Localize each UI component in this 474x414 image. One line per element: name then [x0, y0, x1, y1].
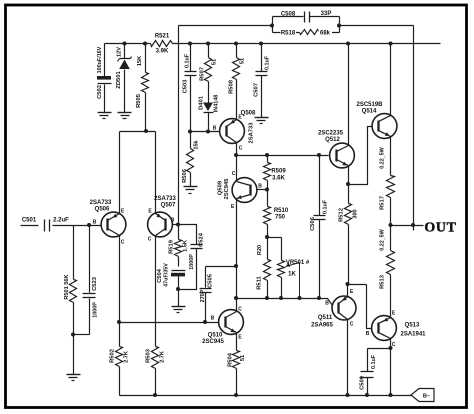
junction rail-Q514: [389, 42, 393, 46]
junction rail-C503: [188, 42, 192, 46]
resistor R513: [387, 226, 395, 318]
diode D401: [203, 103, 214, 132]
potentiometer VR501: [278, 238, 300, 299]
svg-text:2SA733: 2SA733: [249, 122, 255, 144]
svg-text:C: C: [238, 307, 242, 313]
svg-text:R20: R20: [257, 245, 263, 255]
junction wiper bottom: [298, 296, 302, 300]
label D401: [199, 95, 220, 112]
zener ZD501: [118, 44, 132, 113]
wire bottom rail: [120, 395, 412, 397]
transistor Q513: [372, 316, 397, 341]
wire to C504 ground: [178, 290, 180, 307]
svg-text:C501: C501: [22, 218, 37, 224]
junction base-C503: [188, 130, 192, 134]
svg-text:Q510: Q510: [208, 333, 223, 339]
junction rail-Q511: [346, 393, 350, 397]
wire C509 branch: [368, 348, 391, 350]
wire Q507 emitter: [155, 132, 157, 214]
wire Q509 emitter: [236, 199, 238, 267]
svg-text:100uF/16V: 100uF/16V: [97, 46, 103, 73]
label Q514: [356, 102, 383, 115]
junction bus-R505: [144, 129, 148, 133]
label R518: [281, 29, 333, 37]
label R519: [169, 239, 189, 254]
capacitor C524: [179, 225, 203, 290]
label C523: [92, 276, 98, 318]
transistor Q508: [220, 119, 245, 144]
pin C Q507: [148, 237, 152, 243]
svg-text:1.5K: 1.5K: [183, 240, 189, 252]
junction base-D401: [206, 130, 210, 134]
capacitor C501: [45, 220, 102, 232]
junction rail-R508: [234, 42, 238, 46]
svg-text:Q507: Q507: [161, 203, 176, 209]
junction rail-Q513: [389, 393, 393, 397]
transistor Q510: [219, 310, 244, 335]
label C503: [183, 53, 191, 93]
pin B Q510: [211, 316, 215, 322]
svg-text:C502: C502: [97, 85, 103, 99]
ground C504: [172, 307, 186, 313]
label R511: [257, 245, 263, 290]
resistor R508: [233, 44, 240, 120]
label R521: [155, 34, 170, 55]
capacitor C502: [97, 44, 112, 113]
svg-text:Q511: Q511: [318, 315, 333, 321]
junction rail-ZD501: [123, 42, 127, 46]
svg-text:C: C: [232, 171, 236, 177]
pin B Q508: [213, 126, 217, 132]
transistor Q506: [101, 212, 126, 237]
svg-text:B: B: [93, 220, 97, 226]
label R510: [274, 208, 289, 221]
junction rail-R505: [143, 42, 147, 46]
svg-text:47uF/35V: 47uF/35V: [163, 263, 169, 287]
junction base-C505: [203, 320, 207, 324]
label R503: [146, 348, 166, 363]
pin C Q510: [238, 307, 242, 313]
svg-text:IN4148: IN4148: [214, 95, 220, 112]
svg-text:C509: C509: [360, 375, 366, 390]
label Q512: [318, 131, 344, 144]
svg-text:15K: 15K: [137, 56, 143, 66]
wire feedback vertical: [178, 26, 180, 225]
resistor R507: [205, 44, 212, 103]
pin E Q509: [231, 204, 235, 210]
junction base-R502: [117, 320, 121, 324]
svg-text:R506: R506: [182, 168, 188, 183]
wire Q506 emitter: [119, 132, 121, 214]
pin B Q507: [171, 218, 175, 224]
label C505: [200, 273, 214, 302]
svg-text:VR501 #: VR501 #: [286, 260, 310, 266]
label R517: [379, 146, 385, 210]
svg-text:C506: C506: [310, 216, 316, 231]
svg-text:Q513: Q513: [405, 323, 420, 329]
svg-text:750: 750: [275, 215, 286, 221]
svg-text:3.6K: 3.6K: [272, 176, 285, 182]
svg-text:0.1uF: 0.1uF: [184, 53, 190, 68]
svg-text:R503: R503: [146, 348, 152, 363]
wire OUT: [391, 225, 424, 227]
wire C505 branch: [206, 266, 237, 268]
pin E Q506: [121, 209, 125, 215]
svg-text:R507: R507: [200, 67, 206, 81]
junction rail-R507: [206, 42, 210, 46]
capacitor C505: [200, 267, 212, 323]
resistor R517: [387, 176, 395, 226]
label C506: [310, 199, 328, 231]
junction rail-R503: [153, 393, 157, 397]
resistor R506: [187, 132, 194, 187]
svg-text:B: B: [258, 184, 262, 190]
svg-text:OUT: OUT: [424, 220, 456, 235]
svg-text:R508: R508: [229, 79, 235, 94]
wire Q513 collector: [390, 339, 392, 396]
pin C Q509: [232, 171, 236, 177]
wire Q510 base: [120, 322, 219, 324]
wire Q506 collector: [119, 236, 121, 323]
wire Q514 emitter: [390, 137, 392, 176]
transistor Q514: [372, 114, 397, 139]
capacitor C506: [314, 156, 326, 299]
wire bias bottom: [237, 299, 333, 306]
wire Q511 emitter: [347, 285, 349, 297]
junction C506 bottom: [317, 296, 321, 300]
junction C506 top: [317, 153, 321, 157]
junction Q513-C509: [389, 346, 393, 350]
wire Q514 collector: [390, 44, 392, 117]
wire supply rail: [105, 43, 441, 45]
wire Q509 collector: [236, 156, 238, 182]
svg-text:C: C: [350, 322, 354, 328]
wire Q512 collector: [348, 44, 350, 146]
pin B Q513: [366, 331, 370, 337]
svg-text:C508: C508: [281, 11, 296, 17]
junction fb-left: [270, 24, 274, 28]
resistor R503: [152, 236, 159, 396]
wire Q508 collector: [236, 143, 238, 156]
svg-text:2SC945: 2SC945: [224, 178, 230, 200]
pin C Q508: [239, 146, 243, 152]
label Q506: [90, 200, 112, 213]
pin C Q511: [350, 322, 354, 328]
resistor R511: [264, 238, 271, 299]
junction R511 bottom: [265, 296, 269, 300]
terminal B-: [411, 389, 434, 402]
svg-text:0.22_5W: 0.22_5W: [379, 228, 385, 250]
resistor R518: [273, 30, 340, 35]
svg-text:33P: 33P: [321, 11, 332, 17]
svg-text:2SA733: 2SA733: [154, 196, 176, 202]
svg-text:B: B: [366, 331, 370, 337]
svg-text:R502: R502: [110, 349, 116, 363]
wire Q509-Q510 link: [236, 267, 238, 311]
label R512: [339, 208, 359, 222]
svg-text:C523: C523: [92, 276, 98, 291]
junction C504-C524: [176, 287, 180, 291]
junction Q508-Q509: [234, 153, 238, 157]
label R506: [182, 139, 199, 182]
svg-text:C: C: [392, 342, 396, 348]
wire Q509 base: [257, 189, 268, 191]
label Q513: [400, 323, 426, 338]
ground ZD501: [118, 113, 132, 119]
capacitor C504: [171, 271, 186, 290]
svg-text:2SC2235: 2SC2235: [318, 131, 344, 137]
svg-text:C: C: [239, 146, 243, 152]
pin C Q513: [392, 342, 396, 348]
svg-text:2SC519B: 2SC519B: [356, 102, 383, 108]
label OUT: [424, 220, 456, 235]
pin E Q513: [392, 311, 396, 317]
wire C508 branch: [273, 17, 340, 33]
svg-text:B: B: [211, 316, 215, 322]
svg-text:R512: R512: [339, 208, 345, 222]
junction rail-R504: [234, 393, 238, 397]
svg-text:R501 56K: R501 56K: [64, 274, 70, 299]
svg-text:C504: C504: [157, 268, 163, 283]
label R504: [228, 352, 246, 367]
label C507: [254, 55, 271, 97]
junction R512-Q511: [346, 282, 350, 286]
label Q511: [311, 315, 333, 329]
junction Q512-R512: [346, 182, 350, 186]
junction R510-R511: [265, 235, 269, 239]
svg-text:R517: R517: [380, 196, 386, 210]
wire feedback top: [179, 25, 414, 27]
node OUT junction: [411, 223, 415, 227]
capacitor C503: [185, 44, 197, 132]
label C502: [97, 46, 103, 99]
junction R509 top: [265, 153, 269, 157]
svg-text:300: 300: [353, 209, 359, 218]
ground C502: [98, 113, 112, 119]
junction VR501 bottom: [279, 296, 283, 300]
wire to input ground: [73, 335, 75, 375]
svg-text:51: 51: [212, 59, 218, 65]
label C504: [157, 263, 169, 287]
junction fb-Q507base: [176, 223, 180, 227]
junction input-C523: [87, 223, 91, 227]
svg-text:C507: C507: [254, 83, 260, 97]
svg-text:Q514: Q514: [362, 109, 377, 115]
wire bias top: [268, 237, 282, 239]
svg-text:ZD501: ZD501: [116, 71, 122, 89]
svg-text:Q509: Q509: [218, 180, 224, 195]
wire Q512 emitter: [348, 166, 350, 185]
wire Q511-Q513 link: [348, 284, 367, 286]
svg-text:51: 51: [240, 355, 246, 361]
resistor R505: [142, 44, 149, 132]
svg-text:0.1uF: 0.1uF: [322, 199, 328, 214]
label R501: [64, 274, 70, 299]
label Q510: [202, 333, 224, 346]
resistor R519: [175, 225, 182, 267]
pin B Q506: [93, 220, 97, 226]
svg-text:68k: 68k: [320, 31, 331, 37]
capacitor C509: [361, 349, 374, 396]
wire Q514 base: [349, 127, 373, 185]
label R507: [200, 59, 218, 81]
wire Q511 collector: [347, 320, 349, 396]
wire Q513 base: [367, 285, 372, 329]
svg-text:2.7K: 2.7K: [124, 351, 130, 363]
svg-text:2SA965: 2SA965: [311, 323, 333, 329]
resistor R501: [70, 226, 77, 335]
pin B Q511: [325, 301, 329, 307]
label R508: [229, 58, 246, 94]
wire VAS output: [237, 155, 329, 157]
transistor Q511: [332, 296, 356, 320]
junction fb-right: [337, 24, 341, 28]
svg-text:15k: 15k: [194, 139, 200, 149]
junction rail-C509: [365, 393, 369, 397]
junction rail-Q512: [346, 42, 350, 46]
wire Q507 base: [173, 224, 179, 226]
svg-text:51: 51: [240, 58, 246, 64]
ground R506: [184, 187, 198, 194]
svg-text:C: C: [121, 240, 125, 246]
svg-text:12V: 12V: [117, 47, 123, 57]
capacitor C507: [256, 44, 268, 118]
label Q508: [241, 111, 256, 144]
junction R501-C523: [71, 333, 75, 337]
svg-text:B: B: [213, 126, 217, 132]
svg-text:D401: D401: [199, 95, 205, 110]
resistor R504: [233, 334, 240, 396]
label R509: [271, 169, 286, 182]
svg-text:0.1uF: 0.1uF: [371, 354, 377, 369]
capacitor C508: [305, 12, 310, 23]
svg-text:R509: R509: [271, 169, 286, 175]
junction emitter-bias: [234, 296, 238, 300]
ground C507: [255, 118, 269, 124]
svg-text:2.2uF: 2.2uF: [53, 218, 69, 224]
svg-text:2SC945: 2SC945: [202, 339, 224, 345]
svg-text:C: C: [148, 237, 152, 243]
svg-text:Q512: Q512: [325, 137, 340, 143]
wire emitter bus: [120, 131, 156, 133]
svg-text:1000P: 1000P: [189, 254, 195, 270]
label R505: [136, 56, 143, 108]
label Q509: [218, 178, 231, 200]
wire to OUT: [413, 26, 415, 231]
svg-text:2SA1941: 2SA1941: [400, 332, 426, 338]
label ZD501: [116, 47, 122, 89]
ground input: [67, 375, 81, 381]
svg-text:Q506: Q506: [95, 207, 110, 213]
svg-text:B: B: [171, 218, 175, 224]
label R502: [110, 349, 130, 363]
svg-text:0.1uF: 0.1uF: [264, 55, 270, 70]
label VR501: [286, 260, 310, 278]
transistor Q507: [148, 212, 173, 237]
svg-text:270P: 270P: [200, 289, 206, 302]
pin E Q508: [238, 115, 242, 121]
label C524: [189, 232, 205, 270]
svg-text:Q508: Q508: [241, 111, 256, 117]
svg-text:2.7K: 2.7K: [160, 351, 166, 363]
svg-text:3.9K: 3.9K: [156, 49, 169, 55]
transistor Q512: [330, 143, 355, 168]
svg-text:R521: R521: [155, 34, 170, 40]
resistor R521: [151, 41, 173, 47]
svg-text:C505: C505: [208, 273, 214, 288]
svg-text:C503: C503: [183, 79, 189, 94]
pin E Q510: [238, 335, 242, 341]
pin E Q511: [350, 289, 354, 295]
resistor R512: [345, 185, 352, 285]
resistor R502: [116, 323, 123, 396]
svg-text:B: B: [325, 301, 329, 307]
svg-text:1K: 1K: [288, 272, 296, 278]
svg-text:R519: R519: [169, 239, 175, 254]
label C508: [281, 11, 332, 17]
svg-text:1000P: 1000P: [92, 302, 98, 318]
wire input: [21, 225, 39, 227]
svg-text:2SA733: 2SA733: [90, 200, 112, 206]
svg-text:R505: R505: [136, 93, 142, 108]
wire Q508 base: [191, 131, 220, 133]
label R513: [379, 228, 385, 289]
resistor R509: [264, 156, 271, 190]
svg-text:R518: R518: [281, 31, 296, 37]
svg-text:R511: R511: [257, 275, 263, 289]
label C501: [22, 218, 69, 224]
svg-text:R504: R504: [228, 352, 234, 367]
pin B Q509: [258, 184, 262, 190]
pin C Q506: [121, 240, 125, 246]
svg-text:R513: R513: [380, 274, 386, 289]
transistor Q509: [232, 178, 257, 203]
junction rail-C507: [259, 42, 263, 46]
pin E Q507: [148, 209, 152, 215]
svg-text:B–: B–: [423, 393, 430, 399]
svg-text:C524: C524: [199, 232, 205, 247]
label C509: [360, 354, 377, 390]
label Q507: [154, 196, 176, 209]
svg-text:R510: R510: [274, 208, 289, 214]
junction R509-R510: [265, 188, 269, 192]
junction R517-R513: [389, 223, 393, 227]
svg-text:0.22_5W: 0.22_5W: [379, 146, 385, 168]
capacitor C523: [74, 226, 96, 335]
resistor R510: [264, 190, 271, 238]
junction C505-emitter: [234, 264, 238, 268]
